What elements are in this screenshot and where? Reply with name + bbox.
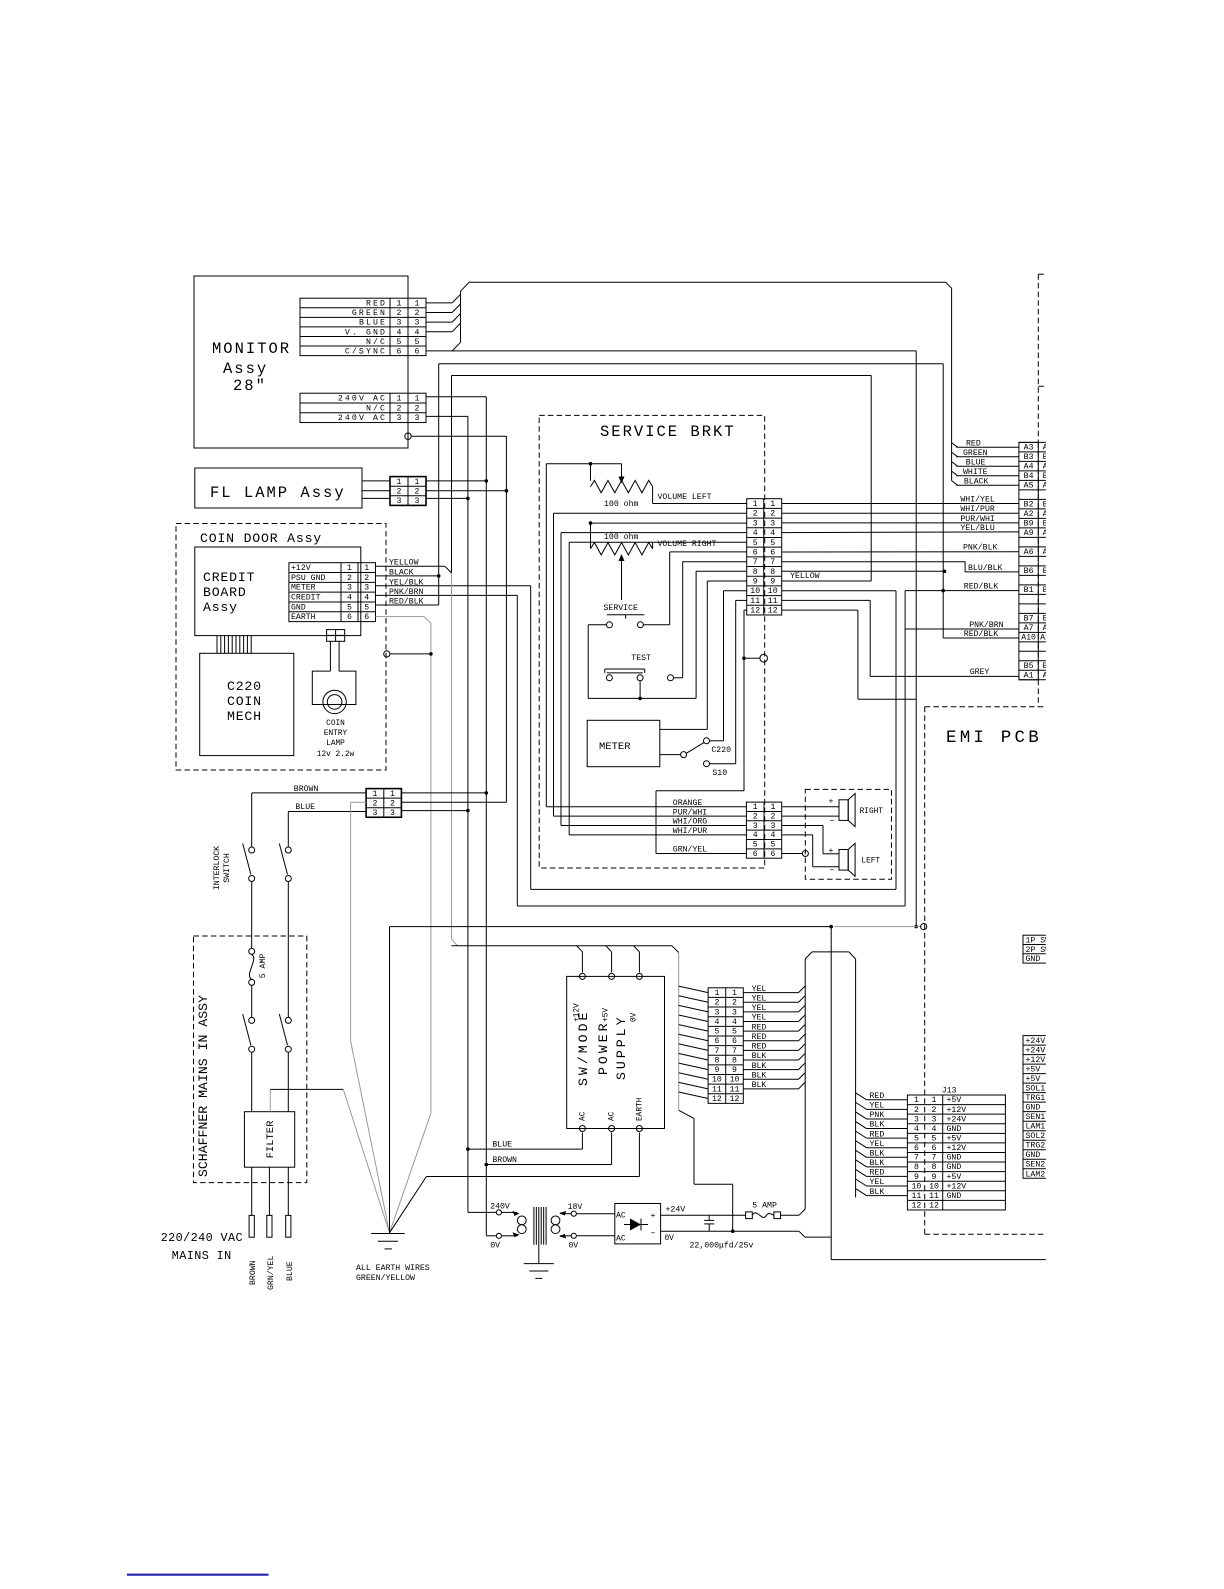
svg-text:12: 12 — [750, 607, 760, 616]
svg-text:LAMP: LAMP — [326, 740, 345, 748]
svg-text:0V: 0V — [630, 1012, 638, 1022]
svg-text:+5V: +5V — [947, 1173, 962, 1182]
svg-text:SWITCH: SWITCH — [223, 853, 232, 883]
svg-text:BLACK: BLACK — [964, 477, 989, 486]
svg-text:1: 1 — [364, 564, 369, 573]
svg-text:3: 3 — [770, 822, 775, 831]
svg-text:+5V: +5V — [603, 1008, 611, 1022]
svg-text:10: 10 — [768, 587, 778, 596]
svg-text:100 ohm: 100 ohm — [604, 499, 638, 509]
svg-text:WHI/PUR: WHI/PUR — [960, 504, 994, 514]
svg-text:3: 3 — [364, 584, 369, 593]
svg-text:POWER: POWER — [596, 1020, 611, 1075]
svg-text:WHITE: WHITE — [963, 468, 988, 477]
svg-text:A6: A6 — [1024, 548, 1034, 557]
svg-text:6: 6 — [732, 1037, 737, 1046]
svg-text:BLK: BLK — [752, 1081, 767, 1090]
svg-text:2: 2 — [390, 799, 395, 808]
svg-text:BLK: BLK — [752, 1071, 767, 1080]
svg-text:1: 1 — [397, 478, 402, 487]
svg-text:2: 2 — [397, 309, 402, 318]
svg-text:A5: A5 — [1024, 482, 1034, 491]
svg-text:RED: RED — [752, 1043, 767, 1052]
svg-text:INTERLOCK: INTERLOCK — [213, 846, 222, 890]
svg-text:−: − — [830, 867, 835, 876]
svg-text:Assy: Assy — [203, 600, 238, 615]
svg-text:3: 3 — [372, 809, 377, 818]
svg-text:+: + — [829, 847, 834, 856]
svg-text:CREDIT: CREDIT — [291, 593, 321, 602]
svg-text:4: 4 — [932, 1125, 937, 1134]
svg-text:A9: A9 — [1024, 529, 1034, 538]
svg-text:3: 3 — [914, 1115, 919, 1124]
svg-text:GREEN/YELLOW: GREEN/YELLOW — [356, 1273, 415, 1283]
svg-text:N/C: N/C — [366, 337, 387, 347]
svg-text:9: 9 — [914, 1173, 919, 1182]
svg-text:11: 11 — [911, 1192, 921, 1201]
svg-text:11: 11 — [730, 1085, 740, 1094]
svg-text:10: 10 — [712, 1076, 722, 1085]
svg-text:11: 11 — [750, 597, 760, 606]
svg-text:2: 2 — [932, 1106, 937, 1115]
svg-text:5: 5 — [415, 338, 420, 347]
svg-text:2: 2 — [770, 510, 775, 519]
svg-text:GRN/YEL: GRN/YEL — [266, 1256, 276, 1290]
svg-text:MONITOR: MONITOR — [212, 340, 291, 358]
svg-text:240V AC: 240V AC — [338, 414, 387, 423]
svg-text:5: 5 — [753, 539, 758, 548]
svg-text:B9: B9 — [1024, 520, 1034, 529]
svg-text:YELLOW: YELLOW — [790, 572, 820, 581]
svg-text:8: 8 — [770, 568, 775, 577]
svg-text:GND: GND — [1026, 955, 1041, 964]
svg-text:RED: RED — [366, 300, 387, 309]
svg-text:Assy: Assy — [223, 360, 268, 378]
svg-text:12: 12 — [911, 1202, 921, 1211]
svg-text:5: 5 — [397, 338, 402, 347]
svg-text:B5: B5 — [1024, 662, 1034, 671]
svg-text:+5V: +5V — [947, 1135, 962, 1144]
svg-text:BLUE: BLUE — [286, 1261, 295, 1281]
svg-text:BLK: BLK — [752, 1052, 767, 1061]
svg-text:3: 3 — [932, 1115, 937, 1124]
svg-text:EARTH: EARTH — [291, 613, 316, 622]
svg-text:A4: A4 — [1024, 463, 1034, 472]
svg-text:1: 1 — [932, 1096, 937, 1105]
svg-text:SERVICE BRKT: SERVICE BRKT — [600, 423, 736, 441]
svg-text:10: 10 — [730, 1076, 740, 1085]
svg-text:9: 9 — [932, 1173, 937, 1182]
svg-text:6: 6 — [347, 613, 352, 622]
svg-text:1: 1 — [415, 478, 420, 487]
svg-text:S10: S10 — [712, 769, 727, 778]
svg-text:4: 4 — [397, 328, 402, 337]
svg-text:3: 3 — [732, 1008, 737, 1017]
svg-text:WHI/YEL: WHI/YEL — [960, 495, 994, 505]
svg-text:5: 5 — [732, 1028, 737, 1037]
svg-text:0V: 0V — [568, 1242, 578, 1251]
svg-text:A2: A2 — [1024, 510, 1034, 519]
svg-text:YEL/BLU: YEL/BLU — [960, 523, 994, 533]
svg-text:YEL: YEL — [752, 985, 767, 994]
svg-text:+5V: +5V — [947, 1096, 962, 1105]
svg-text:6: 6 — [397, 347, 402, 356]
svg-text:3: 3 — [397, 319, 402, 328]
svg-text:12: 12 — [712, 1095, 722, 1104]
svg-text:3: 3 — [753, 822, 758, 831]
svg-text:+: + — [651, 1212, 656, 1221]
svg-text:3: 3 — [714, 1008, 719, 1017]
svg-text:+12V: +12V — [947, 1106, 967, 1115]
svg-text:GREEN: GREEN — [352, 309, 387, 318]
svg-text:YEL: YEL — [752, 1004, 767, 1013]
svg-text:8: 8 — [914, 1163, 919, 1172]
svg-text:GND: GND — [947, 1125, 962, 1134]
svg-text:PNK: PNK — [870, 1111, 885, 1120]
svg-text:RED: RED — [752, 1023, 767, 1032]
svg-text:V. GND: V. GND — [345, 328, 387, 337]
svg-text:12: 12 — [929, 1202, 939, 1211]
svg-text:6: 6 — [753, 548, 758, 557]
svg-text:+12V: +12V — [947, 1144, 967, 1153]
svg-text:8: 8 — [753, 568, 758, 577]
svg-text:2: 2 — [732, 999, 737, 1008]
svg-text:BOARD: BOARD — [203, 585, 247, 600]
svg-text:1: 1 — [415, 300, 420, 309]
svg-text:METER: METER — [291, 584, 316, 593]
svg-text:7: 7 — [914, 1154, 919, 1163]
svg-text:3: 3 — [415, 414, 420, 423]
svg-text:5: 5 — [770, 539, 775, 548]
svg-text:2: 2 — [415, 309, 420, 318]
svg-text:1: 1 — [753, 500, 758, 509]
svg-text:4: 4 — [753, 831, 758, 840]
svg-text:18V: 18V — [568, 1203, 583, 1212]
svg-text:RED: RED — [870, 1092, 885, 1101]
svg-text:VOLUME LEFT: VOLUME LEFT — [658, 493, 712, 502]
svg-text:CREDIT: CREDIT — [203, 570, 255, 585]
svg-text:A3: A3 — [1024, 444, 1034, 453]
svg-text:9: 9 — [770, 578, 775, 587]
svg-text:COIN: COIN — [326, 720, 345, 728]
svg-text:7: 7 — [932, 1154, 937, 1163]
svg-text:11: 11 — [929, 1192, 939, 1201]
svg-text:2: 2 — [372, 799, 377, 808]
svg-text:RED: RED — [870, 1130, 885, 1139]
svg-text:6: 6 — [770, 850, 775, 859]
svg-text:5: 5 — [753, 841, 758, 850]
svg-text:FL LAMP Assy: FL LAMP Assy — [210, 484, 346, 502]
svg-text:7: 7 — [753, 558, 758, 567]
svg-text:1: 1 — [770, 803, 775, 812]
svg-text:BLUE: BLUE — [295, 803, 315, 812]
svg-text:EARTH: EARTH — [636, 1097, 644, 1121]
svg-text:6: 6 — [932, 1144, 937, 1153]
svg-text:RIGHT: RIGHT — [860, 808, 884, 816]
svg-text:ENTRY: ENTRY — [324, 730, 348, 738]
svg-text:−: − — [651, 1230, 656, 1239]
svg-text:3: 3 — [770, 519, 775, 528]
svg-text:SERVICE: SERVICE — [604, 604, 638, 613]
svg-text:4: 4 — [770, 831, 775, 840]
svg-text:10: 10 — [750, 587, 760, 596]
svg-text:RED: RED — [966, 439, 981, 448]
svg-text:BLK: BLK — [870, 1149, 885, 1158]
svg-text:PNK/BRN: PNK/BRN — [969, 620, 1003, 630]
svg-text:7: 7 — [714, 1047, 719, 1056]
svg-text:AC: AC — [616, 1235, 626, 1244]
svg-text:+12V: +12V — [947, 1182, 967, 1191]
svg-text:YEL: YEL — [870, 1102, 885, 1111]
svg-text:12: 12 — [768, 607, 778, 616]
svg-text:5: 5 — [364, 603, 369, 612]
svg-text:1: 1 — [770, 500, 775, 509]
svg-text:5: 5 — [932, 1135, 937, 1144]
svg-text:2: 2 — [397, 404, 402, 413]
svg-text:B1: B1 — [1024, 586, 1034, 595]
svg-text:PSU GND: PSU GND — [291, 574, 325, 583]
svg-text:3: 3 — [415, 497, 420, 506]
svg-text:LEFT: LEFT — [861, 858, 880, 866]
svg-text:9: 9 — [753, 578, 758, 587]
svg-text:TEST: TEST — [631, 654, 651, 663]
svg-text:4: 4 — [732, 1018, 737, 1027]
svg-text:2: 2 — [415, 488, 420, 497]
svg-text:A10: A10 — [1021, 634, 1036, 643]
svg-text:PNK/BLK: PNK/BLK — [963, 543, 997, 553]
svg-text:8: 8 — [732, 1056, 737, 1065]
svg-text:N/C: N/C — [366, 403, 387, 413]
svg-text:BLK: BLK — [870, 1121, 885, 1130]
svg-text:MECH: MECH — [227, 709, 262, 724]
svg-text:BLK: BLK — [870, 1188, 885, 1197]
svg-text:1: 1 — [390, 790, 395, 799]
svg-text:0V: 0V — [665, 1235, 675, 1243]
svg-text:240V AC: 240V AC — [338, 395, 387, 404]
svg-text:2: 2 — [347, 574, 352, 583]
svg-text:11: 11 — [768, 597, 778, 606]
svg-text:2: 2 — [364, 574, 369, 583]
svg-text:RED: RED — [752, 1033, 767, 1042]
svg-text:+12V: +12V — [573, 1003, 581, 1022]
svg-text:6: 6 — [914, 1144, 919, 1153]
svg-text:2: 2 — [914, 1106, 919, 1115]
svg-text:2: 2 — [415, 404, 420, 413]
svg-text:6: 6 — [770, 548, 775, 557]
svg-text:7: 7 — [770, 558, 775, 567]
svg-text:2: 2 — [753, 510, 758, 519]
svg-text:5 AMP: 5 AMP — [259, 954, 268, 979]
svg-text:VOLUME RIGHT: VOLUME RIGHT — [658, 540, 717, 549]
svg-text:1: 1 — [732, 989, 737, 998]
svg-text:12v 2.2w: 12v 2.2w — [317, 751, 355, 759]
svg-text:2: 2 — [397, 488, 402, 497]
svg-text:9: 9 — [714, 1066, 719, 1075]
svg-text:BLU/BLK: BLU/BLK — [968, 563, 1002, 573]
svg-text:1: 1 — [914, 1096, 919, 1105]
svg-text:BLUE: BLUE — [966, 458, 986, 467]
svg-text:1: 1 — [347, 564, 352, 573]
svg-text:AC: AC — [616, 1212, 626, 1221]
svg-text:+24V: +24V — [666, 1206, 686, 1215]
svg-text:3: 3 — [397, 497, 402, 506]
svg-text:+: + — [829, 797, 834, 806]
svg-text:220/240 VAC: 220/240 VAC — [161, 1231, 243, 1245]
svg-text:3: 3 — [753, 519, 758, 528]
svg-text:MAINS IN: MAINS IN — [172, 1249, 232, 1263]
svg-text:6: 6 — [415, 347, 420, 356]
svg-text:C/SYNC: C/SYNC — [345, 346, 387, 356]
svg-text:0V: 0V — [490, 1242, 500, 1251]
svg-text:GREEN: GREEN — [963, 449, 988, 458]
svg-text:BLK: BLK — [752, 1062, 767, 1071]
svg-text:COIN DOOR Assy: COIN DOOR Assy — [200, 531, 322, 546]
svg-text:A7: A7 — [1024, 624, 1034, 633]
svg-text:1: 1 — [397, 300, 402, 309]
svg-text:AC: AC — [579, 1111, 587, 1121]
svg-text:3: 3 — [390, 809, 395, 818]
svg-text:5: 5 — [347, 603, 352, 612]
svg-text:BLK: BLK — [870, 1159, 885, 1168]
svg-text:12: 12 — [730, 1095, 740, 1104]
svg-text:B6: B6 — [1024, 567, 1034, 576]
svg-text:3: 3 — [397, 414, 402, 423]
svg-text:6: 6 — [364, 613, 369, 622]
svg-text:10: 10 — [929, 1182, 939, 1191]
svg-text:GND: GND — [947, 1154, 962, 1163]
svg-text:2: 2 — [770, 813, 775, 822]
svg-text:SUPPLY: SUPPLY — [614, 1015, 629, 1080]
svg-text:2: 2 — [714, 999, 719, 1008]
svg-text:2: 2 — [753, 813, 758, 822]
svg-text:GND: GND — [947, 1192, 962, 1201]
svg-text:4: 4 — [770, 529, 775, 538]
svg-text:B3: B3 — [1024, 453, 1034, 462]
svg-text:−: − — [830, 817, 835, 826]
svg-text:ALL EARTH WIRES: ALL EARTH WIRES — [356, 1264, 430, 1273]
svg-text:B7: B7 — [1024, 615, 1034, 624]
svg-text:8: 8 — [932, 1163, 937, 1172]
svg-text:4: 4 — [347, 593, 352, 602]
svg-text:BLUE: BLUE — [492, 1140, 512, 1149]
svg-text:5: 5 — [914, 1135, 919, 1144]
svg-text:METER: METER — [599, 741, 631, 753]
svg-text:+12V: +12V — [291, 564, 311, 573]
svg-text:22,000μfd/25v: 22,000μfd/25v — [690, 1241, 754, 1251]
svg-text:4: 4 — [753, 529, 758, 538]
svg-text:SCHAFFNER MAINS IN ASSY: SCHAFFNER MAINS IN ASSY — [196, 995, 211, 1177]
svg-text:BROWN: BROWN — [249, 1260, 258, 1285]
svg-text:1: 1 — [397, 395, 402, 404]
svg-text:GREY: GREY — [970, 668, 990, 677]
svg-text:GND: GND — [947, 1163, 962, 1172]
svg-text:+24V: +24V — [947, 1115, 967, 1124]
svg-text:YEL: YEL — [752, 994, 767, 1003]
svg-text:4: 4 — [714, 1018, 719, 1027]
svg-text:AC: AC — [609, 1111, 617, 1121]
svg-text:5: 5 — [714, 1028, 719, 1037]
svg-text:A1: A1 — [1024, 672, 1034, 681]
svg-text:C220: C220 — [711, 746, 731, 755]
svg-text:RED/BLK: RED/BLK — [964, 581, 998, 591]
svg-text:5: 5 — [770, 841, 775, 850]
svg-text:BROWN: BROWN — [492, 1156, 517, 1165]
svg-text:100 ohm: 100 ohm — [604, 532, 638, 542]
svg-text:BLUE: BLUE — [359, 319, 387, 328]
svg-text:1: 1 — [415, 395, 420, 404]
svg-text:FILTER: FILTER — [265, 1120, 277, 1159]
svg-text:YEL: YEL — [870, 1178, 885, 1187]
svg-text:PUR/WHI: PUR/WHI — [960, 514, 994, 524]
svg-text:10: 10 — [911, 1182, 921, 1191]
svg-text:LAM2: LAM2 — [1026, 1170, 1046, 1179]
svg-text:J13: J13 — [942, 1087, 957, 1096]
svg-text:1: 1 — [714, 989, 719, 998]
svg-text:C220: C220 — [227, 679, 262, 694]
svg-text:COIN: COIN — [227, 694, 262, 709]
svg-text:RED: RED — [870, 1169, 885, 1178]
svg-text:6: 6 — [714, 1037, 719, 1046]
svg-text:EMI PCB: EMI PCB — [946, 728, 1042, 748]
svg-text:11: 11 — [712, 1085, 722, 1094]
svg-text:4: 4 — [415, 328, 420, 337]
svg-text:1: 1 — [753, 803, 758, 812]
svg-text:1: 1 — [372, 790, 377, 799]
svg-text:YEL: YEL — [870, 1140, 885, 1149]
svg-text:5 AMP: 5 AMP — [752, 1202, 777, 1211]
svg-text:28″: 28″ — [233, 377, 267, 395]
svg-text:RED/BLK: RED/BLK — [964, 629, 998, 639]
svg-text:B4: B4 — [1024, 472, 1034, 481]
svg-text:3: 3 — [347, 584, 352, 593]
svg-text:3: 3 — [415, 319, 420, 328]
svg-text:GRN/YEL: GRN/YEL — [673, 845, 707, 855]
svg-text:4: 4 — [914, 1125, 919, 1134]
svg-text:9: 9 — [732, 1066, 737, 1075]
svg-text:B2: B2 — [1024, 501, 1034, 510]
svg-text:4: 4 — [364, 593, 369, 602]
svg-text:8: 8 — [714, 1056, 719, 1065]
svg-text:6: 6 — [753, 850, 758, 859]
svg-text:7: 7 — [732, 1047, 737, 1056]
svg-text:GND: GND — [291, 603, 306, 612]
svg-text:YEL: YEL — [752, 1014, 767, 1023]
